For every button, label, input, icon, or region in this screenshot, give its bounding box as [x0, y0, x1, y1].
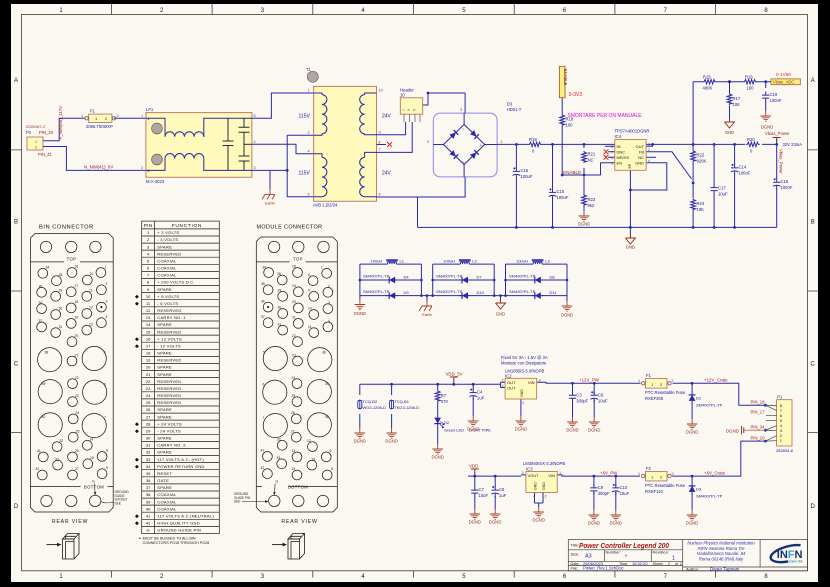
svg-text:◆: ◆ — [135, 428, 139, 434]
svg-text:16:32:20: 16:32:20 — [632, 561, 648, 566]
svg-text:N_NIM(41)_0V: N_NIM(41)_0V — [84, 165, 113, 170]
svg-text:6: 6 — [104, 383, 106, 387]
svg-text:36: 36 — [146, 478, 151, 483]
svg-text:42: 42 — [261, 466, 265, 470]
svg-text:12: 12 — [89, 306, 93, 310]
svg-text:◆: ◆ — [135, 513, 139, 519]
svg-text:RESERVED: RESERVED — [157, 386, 181, 391]
svg-text:10: 10 — [379, 89, 383, 93]
svg-text:DGND: DGND — [566, 428, 578, 433]
svg-text:4: 4 — [254, 140, 256, 144]
svg-text:SM4007PL-TP: SM4007PL-TP — [509, 274, 536, 279]
svg-text:4: 4 — [328, 319, 330, 323]
svg-text:ViadellaVasca Navale, 84: ViadellaVasca Navale, 84 — [697, 551, 746, 556]
svg-text:+6V_PW: +6V_PW — [600, 471, 618, 476]
svg-text:21: 21 — [75, 353, 79, 357]
svg-text:RXEF110: RXEF110 — [645, 489, 664, 494]
svg-text:PTC Resettable Fuse: PTC Resettable Fuse — [645, 390, 686, 395]
svg-text:41: 41 — [37, 449, 41, 453]
svg-text:◆: ◆ — [135, 336, 139, 342]
svg-text:L1: L1 — [400, 258, 405, 263]
svg-text:R21: R21 — [588, 152, 596, 157]
svg-text:PIN_34: PIN_34 — [751, 425, 766, 430]
svg-text:SM4007PL-TP: SM4007PL-TP — [436, 274, 463, 279]
svg-text:SPARE: SPARE — [157, 485, 172, 490]
svg-text:24: 24 — [146, 393, 151, 398]
svg-text:MODULE CONNECTOR: MODULE CONNECTOR — [257, 224, 323, 230]
svg-text:300pF: 300pF — [576, 398, 588, 403]
svg-text:P1: P1 — [777, 395, 783, 400]
svg-text:2: 2 — [308, 131, 310, 135]
svg-text:115V: 115V — [299, 114, 311, 120]
svg-text:WG3-1206-D: WG3-1206-D — [363, 405, 387, 410]
svg-text:COAXIAL: COAXIAL — [157, 266, 177, 271]
svg-text:DGND: DGND — [515, 427, 527, 432]
svg-text:VDD: VDD — [469, 464, 478, 469]
svg-text:✦ MUST BE BUSSED TO ALL B: ✦ MUST BE BUSSED TO ALL BIN — [139, 537, 196, 541]
svg-text:30: 30 — [278, 306, 282, 310]
svg-text:1: 1 — [81, 114, 83, 118]
svg-text:L3: L3 — [545, 258, 550, 263]
svg-text:100uF: 100uF — [521, 174, 533, 179]
svg-text:100uH: 100uH — [443, 258, 455, 263]
svg-text:117 VOLTS A.C.(NEUTRAL): 117 VOLTS A.C.(NEUTRAL) — [157, 513, 214, 518]
svg-text:Author:: Author: — [686, 566, 699, 571]
svg-text:HD01-T: HD01-T — [507, 107, 522, 112]
svg-text:+12V_Crate: +12V_Crate — [704, 378, 728, 383]
svg-text:POWER RETURN GND: POWER RETURN GND — [157, 464, 204, 469]
svg-text:30: 30 — [59, 307, 63, 311]
svg-text:7: 7 — [611, 150, 613, 154]
svg-text:DGND: DGND — [354, 439, 366, 444]
svg-text:10uF: 10uF — [718, 192, 728, 197]
svg-text:D3: D3 — [507, 102, 513, 107]
svg-text:SM4007PL-TP: SM4007PL-TP — [509, 289, 536, 294]
svg-text:6: 6 — [611, 156, 613, 160]
svg-text:SM4007PL-TP: SM4007PL-TP — [363, 274, 390, 279]
svg-text:3: 3 — [522, 471, 524, 475]
svg-text:4: 4 — [648, 159, 650, 163]
svg-text:~: ~ — [462, 160, 465, 165]
svg-text:1: 1 — [522, 401, 524, 405]
svg-text:GND: GND — [626, 245, 635, 250]
svg-text:SPARE: SPARE — [157, 372, 172, 377]
svg-text:OUT: OUT — [507, 380, 516, 385]
svg-text:1: 1 — [308, 89, 310, 93]
svg-text:35: 35 — [146, 471, 151, 476]
svg-text:27: 27 — [146, 414, 151, 419]
svg-text:100nF: 100nF — [781, 185, 793, 190]
svg-text:SEE: SEE — [234, 500, 240, 504]
svg-text:8: 8 — [106, 449, 108, 453]
svg-text:21: 21 — [146, 372, 151, 377]
svg-text:28: 28 — [277, 272, 281, 276]
svg-text:31: 31 — [146, 443, 151, 448]
svg-text:31: 31 — [278, 322, 282, 326]
svg-text:35: 35 — [261, 282, 265, 286]
svg-text:DGND: DGND — [432, 455, 444, 460]
svg-text:0-1V50: 0-1V50 — [776, 72, 791, 77]
svg-text:R22: R22 — [697, 153, 705, 158]
svg-text:32: 32 — [60, 439, 64, 443]
svg-text:◆: ◆ — [135, 521, 139, 527]
svg-text:CONNECTORS PG18 THROUGH PG2: CONNECTORS PG18 THROUGH PG28 — [143, 541, 210, 545]
svg-text:A3: A3 — [585, 554, 592, 560]
svg-text:SM4007PL-TP: SM4007PL-TP — [696, 494, 723, 499]
svg-text:26: 26 — [291, 411, 295, 415]
svg-text:19: 19 — [75, 316, 79, 320]
svg-text:8: 8 — [611, 145, 613, 149]
svg-text:SPARE: SPARE — [157, 322, 172, 327]
svg-text:ENABLE: ENABLE — [563, 69, 568, 86]
svg-text:DGND: DGND — [726, 428, 739, 433]
svg-text:12: 12 — [146, 308, 151, 313]
svg-text:22: 22 — [75, 376, 79, 380]
svg-text:PIN: PIN — [144, 223, 153, 229]
svg-text:27: 27 — [291, 429, 295, 433]
svg-text:R24: R24 — [697, 201, 705, 206]
svg-text:Montare con Dissipatore: Montare con Dissipatore — [501, 361, 547, 366]
svg-text:1: 1 — [35, 140, 37, 144]
svg-text:300pF: 300pF — [598, 491, 610, 496]
svg-text:D4: D4 — [404, 275, 410, 280]
svg-text:40: 40 — [325, 415, 329, 419]
svg-text:GND: GND — [520, 389, 524, 397]
svg-text:DGND: DGND — [588, 428, 600, 433]
svg-text:33: 33 — [146, 457, 151, 462]
svg-text:15: 15 — [146, 329, 151, 334]
svg-text:2066.T500IXP: 2066.T500IXP — [86, 124, 113, 129]
svg-text:*: * — [625, 555, 627, 561]
svg-text:C18: C18 — [557, 189, 565, 194]
svg-text:SPARE: SPARE — [157, 450, 172, 455]
svg-text:3: 3 — [407, 109, 411, 111]
svg-text:+: + — [480, 143, 483, 148]
svg-text:F1: F1 — [646, 373, 652, 378]
svg-text:GND: GND — [635, 161, 644, 166]
svg-text:3: 3 — [254, 166, 256, 170]
svg-text:◆: ◆ — [135, 421, 139, 427]
svg-text:10K: 10K — [733, 102, 741, 107]
svg-text:11: 11 — [89, 289, 93, 293]
svg-text:COAXIAL: COAXIAL — [157, 258, 177, 263]
svg-text:34: 34 — [146, 464, 151, 469]
svg-text:39: 39 — [325, 382, 329, 386]
svg-text:C3: C3 — [576, 392, 582, 397]
svg-text:TCQ-B2: TCQ-B2 — [363, 399, 378, 404]
svg-text:3: 3 — [539, 379, 541, 383]
svg-text:10K: 10K — [697, 207, 705, 212]
svg-text:GND: GND — [542, 482, 546, 490]
svg-text:+ 3 VOLTS: + 3 VOLTS — [157, 230, 179, 235]
svg-text:C: C — [14, 362, 19, 368]
svg-text:38: 38 — [45, 351, 49, 355]
svg-text:RESET: RESET — [157, 471, 172, 476]
svg-text:41: 41 — [261, 449, 265, 453]
svg-text:2: 2 — [427, 140, 429, 144]
svg-text:Green LED: Green LED — [444, 428, 464, 433]
svg-text:400K: 400K — [703, 86, 713, 91]
svg-text:◆: ◆ — [135, 457, 139, 463]
svg-text:+ 6 VOLTS: + 6 VOLTS — [157, 294, 179, 299]
svg-text:GROUND GUIDE PIN: GROUND GUIDE PIN — [157, 528, 201, 533]
svg-text:2: 2 — [106, 282, 108, 286]
svg-text:C: C — [811, 362, 816, 368]
svg-text:24: 24 — [292, 376, 296, 380]
svg-text:36: 36 — [261, 299, 265, 303]
svg-text:17: 17 — [75, 284, 79, 288]
svg-text:28: 28 — [59, 273, 63, 277]
svg-text:10: 10 — [146, 294, 151, 299]
svg-text:SM4007PL-TP: SM4007PL-TP — [696, 403, 723, 408]
svg-text:R19: R19 — [529, 137, 537, 142]
svg-text:RESERVED: RESERVED — [157, 329, 181, 334]
svg-text:L2: L2 — [472, 258, 477, 263]
svg-text:13: 13 — [292, 449, 296, 453]
svg-text:23: 23 — [146, 386, 151, 391]
svg-text:100nF: 100nF — [770, 98, 782, 103]
svg-text:R17: R17 — [733, 96, 741, 101]
svg-text:9: 9 — [308, 289, 310, 293]
svg-text:FB: FB — [639, 150, 644, 155]
svg-text:VIN: VIN — [548, 473, 555, 478]
svg-text:◆: ◆ — [135, 464, 139, 470]
svg-text:0-3V3: 0-3V3 — [569, 92, 583, 98]
svg-text:7: 7 — [263, 416, 265, 420]
svg-text:5: 5 — [413, 109, 417, 111]
svg-text:27: 27 — [75, 467, 79, 471]
svg-text:10uF: 10uF — [479, 493, 489, 498]
svg-text:G: G — [276, 480, 279, 484]
svg-text:G: G — [92, 480, 95, 484]
svg-text:D: D — [811, 504, 816, 510]
svg-text:T1: T1 — [306, 67, 312, 72]
svg-text:A: A — [811, 78, 815, 84]
svg-text:10uF: 10uF — [598, 398, 608, 403]
svg-text:R18: R18 — [566, 117, 574, 122]
svg-text:NC: NC — [588, 158, 594, 163]
svg-text:- 6 VOLTS: - 6 VOLTS — [157, 301, 178, 306]
svg-text:ENABLE: ENABLE — [563, 170, 581, 175]
svg-text:TOP: TOP — [67, 257, 77, 262]
svg-text:1: 1 — [672, 556, 675, 562]
svg-text:VOUT: VOUT — [528, 473, 540, 478]
svg-text:INFN-Sezione Roma Tre: INFN-Sezione Roma Tre — [698, 546, 746, 551]
svg-text:DNC: DNC — [617, 150, 626, 155]
svg-text:1: 1 — [402, 109, 406, 111]
svg-text:Sheet:: Sheet: — [653, 562, 664, 566]
svg-text:18: 18 — [146, 351, 151, 356]
svg-text:24: 24 — [76, 411, 80, 415]
svg-text:C10: C10 — [620, 485, 628, 490]
svg-text:F2: F2 — [646, 466, 652, 471]
svg-text:5: 5 — [331, 467, 333, 471]
svg-text:FUNCTION: FUNCTION — [172, 223, 202, 229]
svg-text:25: 25 — [146, 400, 151, 405]
svg-text:23: 23 — [292, 353, 296, 357]
svg-text:100: 100 — [566, 123, 574, 128]
svg-text:SM4007PL-TP: SM4007PL-TP — [363, 289, 390, 294]
svg-text:19: 19 — [292, 284, 296, 288]
svg-text:ROMA TRE: ROMA TRE — [789, 560, 803, 564]
svg-text:DGND: DGND — [686, 430, 698, 435]
svg-text:Size:: Size: — [571, 552, 580, 557]
svg-text:100uF: 100uF — [739, 171, 751, 176]
svg-text:PIN_33: PIN_33 — [39, 130, 54, 135]
svg-text:TCQ-B1: TCQ-B1 — [394, 399, 409, 404]
svg-text:34: 34 — [262, 266, 266, 270]
svg-text:1: 1 — [148, 117, 150, 121]
svg-text:39: 39 — [146, 499, 151, 504]
svg-text:33: 33 — [277, 456, 281, 460]
svg-text:D1: D1 — [696, 396, 702, 401]
svg-text:16: 16 — [75, 265, 79, 269]
svg-text:TPS7A4001DGNR: TPS7A4001DGNR — [615, 129, 650, 134]
svg-text:2: 2 — [35, 146, 37, 150]
svg-text:Revision:: Revision: — [653, 550, 669, 555]
svg-text:SPARE: SPARE — [157, 414, 172, 419]
svg-text:D2: D2 — [444, 420, 450, 425]
svg-text:26: 26 — [146, 407, 151, 412]
svg-text:SEE: SEE — [115, 501, 121, 505]
svg-text:VIN: VIN — [528, 380, 535, 385]
svg-text:6: 6 — [379, 193, 381, 197]
svg-text:117 VOLTS A.C. (HOT): 117 VOLTS A.C. (HOT) — [157, 457, 204, 462]
svg-text:282834-8: 282834-8 — [776, 448, 794, 453]
svg-text:39: 39 — [42, 382, 46, 386]
svg-text:25: 25 — [76, 429, 80, 433]
svg-text:IC3: IC3 — [526, 466, 533, 471]
svg-text:Number:: Number: — [606, 550, 621, 555]
svg-text:SPARE: SPARE — [157, 407, 172, 412]
svg-text:17: 17 — [146, 343, 151, 348]
svg-text:37: 37 — [261, 315, 265, 319]
svg-text:D7: D7 — [477, 275, 483, 280]
svg-text:C6: C6 — [598, 392, 604, 397]
svg-text:4: 4 — [533, 495, 535, 499]
svg-text:P_NIM(55)_117V: P_NIM(55)_117V — [58, 106, 63, 140]
svg-text:Earth: Earth — [422, 312, 432, 317]
svg-text:VDD_5V: VDD_5V — [446, 372, 463, 377]
svg-text:29: 29 — [278, 289, 282, 293]
svg-text:INFN: INFN — [777, 549, 803, 561]
svg-text:LF1: LF1 — [146, 107, 154, 112]
svg-text:1: 1 — [638, 379, 640, 383]
svg-text:HIGH QUALITY GND: HIGH QUALITY GND — [157, 521, 200, 526]
svg-text:1: 1 — [105, 266, 107, 270]
svg-text:GND: GND — [496, 312, 505, 317]
svg-text:D8: D8 — [550, 275, 556, 280]
svg-text:1: 1 — [501, 140, 503, 144]
svg-text:11: 11 — [308, 325, 312, 329]
svg-text:+ 12 VOLTS: + 12 VOLTS — [157, 336, 182, 341]
svg-text:13: 13 — [146, 315, 151, 320]
svg-text:3: 3 — [106, 299, 108, 303]
svg-text:P2: P2 — [26, 130, 32, 135]
svg-text:C7: C7 — [479, 487, 485, 492]
svg-text:TKG3-1206-D: TKG3-1206-D — [394, 405, 419, 410]
svg-text:19: 19 — [146, 358, 151, 363]
svg-text:C19: C19 — [770, 92, 778, 97]
svg-text:C9: C9 — [598, 485, 604, 490]
svg-text:AVB 1,5/2/24: AVB 1,5/2/24 — [313, 203, 338, 208]
svg-text:20: 20 — [75, 334, 79, 338]
svg-text:6: 6 — [263, 383, 265, 387]
svg-text:D3: D3 — [696, 487, 702, 492]
svg-text:RXEF300: RXEF300 — [645, 396, 664, 401]
svg-text:MR/SS: MR/SS — [617, 155, 630, 160]
svg-text:Nuclear Physics National Insti: Nuclear Physics National Institution — [687, 541, 755, 546]
svg-text:3: 3 — [460, 108, 462, 112]
svg-text:D: D — [14, 504, 19, 510]
svg-text:REAR VIEW: REAR VIEW — [281, 519, 317, 525]
svg-text:RESERVED: RESERVED — [157, 379, 181, 384]
svg-text:A: A — [14, 78, 18, 84]
svg-text:GND: GND — [725, 130, 734, 135]
svg-text:5: 5 — [254, 114, 256, 118]
svg-text:32: 32 — [277, 438, 281, 442]
svg-text:M.A-2023: M.A-2023 — [146, 179, 165, 184]
svg-text:COAXIAL: COAXIAL — [157, 506, 177, 511]
svg-text:18: 18 — [292, 265, 296, 269]
svg-text:Vbias_Power: Vbias_Power — [779, 149, 784, 174]
svg-text:LM3940ISX-3.3/NOPB: LM3940ISX-3.3/NOPB — [523, 461, 565, 466]
svg-text:+12V_PW: +12V_PW — [579, 378, 600, 383]
svg-text:R7: R7 — [441, 393, 447, 398]
svg-text:100uH: 100uH — [371, 258, 383, 263]
svg-text:Title:: Title: — [571, 543, 580, 548]
svg-text:G: G — [147, 528, 150, 533]
svg-text:GND: GND — [534, 482, 538, 490]
svg-text:SPARE: SPARE — [157, 436, 172, 441]
svg-text:RESERVED: RESERVED — [157, 393, 181, 398]
svg-text:15: 15 — [90, 456, 94, 460]
svg-text:470: 470 — [441, 399, 449, 404]
svg-text:2020187-2: 2020187-2 — [26, 124, 46, 129]
svg-text:IC4: IC4 — [615, 134, 622, 139]
svg-text:Vbias_Power: Vbias_Power — [765, 131, 790, 136]
svg-text:B: B — [811, 220, 815, 226]
svg-text:RESERVED: RESERVED — [157, 308, 181, 313]
svg-text:C15: C15 — [521, 168, 529, 173]
svg-text:2: 2 — [141, 166, 143, 170]
svg-text:36: 36 — [39, 301, 43, 305]
svg-text:+ 24 VOLTS: + 24 VOLTS — [157, 421, 182, 426]
svg-text:9: 9 — [379, 131, 381, 135]
svg-text:15: 15 — [292, 467, 296, 471]
svg-text:DGND: DGND — [354, 311, 366, 316]
svg-text:31: 31 — [59, 325, 63, 329]
svg-text:2: 2 — [117, 114, 119, 118]
svg-text:BOTTOM: BOTTOM — [288, 484, 308, 489]
svg-text:DGND: DGND — [588, 521, 600, 526]
svg-text:Fixed 5V 3A - 1.5V @ 3A: Fixed 5V 3A - 1.5V @ 3A — [501, 355, 548, 360]
svg-text:16: 16 — [146, 336, 151, 341]
svg-text:B: B — [14, 220, 18, 226]
svg-text:21: 21 — [292, 316, 296, 320]
svg-text:◆: ◆ — [135, 301, 139, 307]
svg-text:9: 9 — [106, 466, 108, 470]
svg-text:3: 3 — [611, 161, 613, 165]
svg-text:25: 25 — [292, 394, 296, 398]
svg-text:+ 200 VOLTS D.C.: + 200 VOLTS D.C. — [157, 280, 195, 285]
svg-text:OUT: OUT — [507, 385, 516, 390]
svg-text:37: 37 — [39, 319, 43, 323]
svg-text:SPARE: SPARE — [157, 244, 172, 249]
svg-text:32V 23mA: 32V 23mA — [783, 142, 803, 147]
svg-text:22: 22 — [146, 379, 151, 384]
svg-text:COAXIAL: COAXIAL — [157, 492, 177, 497]
